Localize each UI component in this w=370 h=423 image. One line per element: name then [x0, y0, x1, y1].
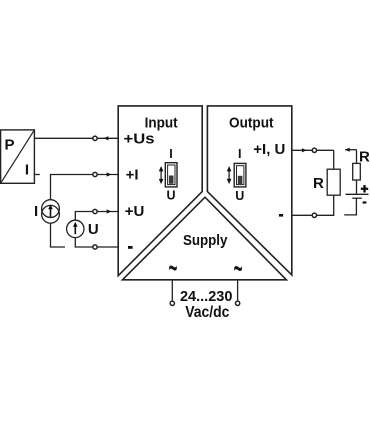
output block [207, 106, 291, 275]
wire +Us [34, 137, 118, 139]
arrow sink branch (points left) [345, 148, 350, 152]
svg-text:Vac/dc: Vac/dc [185, 304, 229, 321]
svg-text:U: U [88, 221, 99, 238]
node input minus terminal [93, 245, 97, 249]
svg-text:Input: Input [145, 115, 178, 132]
wire sink branch top [345, 149, 356, 151]
wire U source minus [75, 238, 118, 247]
wire stub P/I to +I [34, 174, 39, 176]
wire supply terminal left [171, 280, 173, 301]
output I/U selector S2 [227, 147, 246, 203]
label battery plus [361, 185, 368, 192]
svg-text:+Us: +Us [124, 131, 155, 148]
arrow output (points right) [302, 148, 307, 152]
arrow +I (points right) [107, 172, 112, 176]
wire supply terminal right [237, 280, 239, 301]
node +U terminal [93, 209, 97, 213]
svg-text:U: U [166, 189, 175, 203]
input block [118, 106, 202, 276]
label ac left [168, 251, 177, 285]
node output plus terminal [312, 148, 316, 152]
node +Us terminal [93, 136, 97, 140]
node supply terminal left [170, 301, 174, 305]
label ac right [234, 252, 243, 286]
svg-text:24...230: 24...230 [180, 288, 233, 305]
svg-text:Supply: Supply [183, 232, 228, 249]
transmitter box P/I [1, 130, 35, 183]
supply block [123, 197, 287, 280]
wire battery bottom [344, 198, 356, 215]
battery negative plate [352, 197, 362, 199]
svg-text:I: I [34, 203, 38, 220]
wire load R bottom [292, 195, 334, 215]
arrow +U (points right) [107, 209, 112, 213]
wire to load R top [333, 150, 335, 169]
load resistor R [327, 169, 340, 195]
wire +I [51, 175, 119, 200]
svg-text:+U: +U [125, 203, 145, 220]
node output minus terminal [312, 213, 316, 217]
input I/U selector S1 [159, 147, 177, 202]
svg-text:R: R [313, 175, 324, 192]
voltage source U [67, 220, 99, 238]
svg-text:I: I [169, 147, 172, 161]
node supply terminal right [235, 301, 239, 305]
svg-text:Output: Output [229, 115, 274, 132]
label battery minus [363, 201, 367, 203]
wire resistor to battery [356, 180, 358, 194]
battery positive plate [346, 193, 369, 195]
svg-text:+I: +I [126, 167, 139, 184]
svg-text:U: U [235, 189, 244, 203]
terminal label output minus [279, 214, 283, 217]
sink resistor R [353, 163, 361, 180]
wire sink branch to resistor [356, 150, 358, 164]
terminal label input minus [128, 246, 133, 249]
svg-text:P: P [5, 136, 15, 153]
wire output +I,U [292, 149, 334, 151]
wire I source minus [51, 223, 66, 247]
svg-text:+I, U: +I, U [253, 141, 285, 158]
current source I [34, 200, 59, 224]
node +I terminal [93, 172, 97, 176]
svg-text:I: I [25, 162, 29, 179]
svg-text:I: I [238, 147, 241, 161]
arrow +Us (points left) [104, 136, 109, 140]
wire +U [75, 212, 118, 221]
